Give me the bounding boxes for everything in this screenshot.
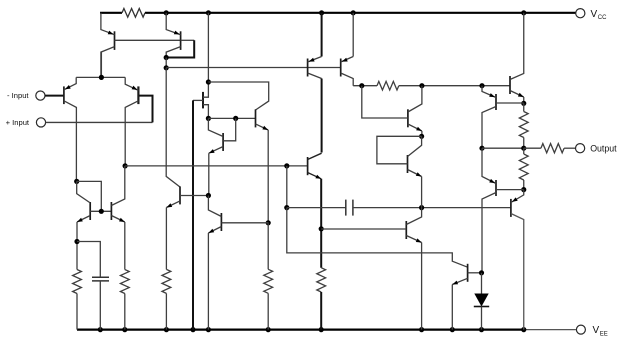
transistor Q21 (PNP, output low-side) [510,199,512,217]
transistor Q8 (NPN, mirror output) [110,202,112,220]
wire R3 to VEE [124,294,126,330]
node Q11 emitter [266,220,271,225]
terminal Output [576,144,585,153]
transistor Q20 (PNP) [495,180,497,196]
node Q5 collector [74,179,79,184]
transistor Q1 (PNP) [114,31,116,50]
terminal VEE [576,325,585,334]
node Q20 base [521,187,526,192]
node bias bus tap [164,65,169,70]
svg-text:Output: Output [590,143,617,153]
node Q6 collector / Q10 base [123,163,128,168]
wire node A to Q11 collector [208,82,268,110]
node Q15 emitter [419,134,424,139]
svg-text:V: V [593,325,600,336]
wire Q7 emitter to C1 [77,242,100,278]
svg-text:V: V [591,9,598,20]
node comp tap [284,163,289,168]
capacitor C1 [92,276,109,278]
transistor Q12 (NPN) [179,186,181,204]
transistor Q16 (NPN, diode-connected) [407,155,409,173]
svg-text:CC: CC [598,15,607,21]
transistor Q4 (PNP) [340,59,342,77]
wire Q7 collector-base tie [77,181,102,211]
wire R2 to VEE corner [76,294,78,330]
transistor Q10 (NPN) [222,133,224,151]
wire node B bus [208,117,255,119]
wire VCC rail (top supply bus) [100,12,122,14]
wire comp node vertical [286,166,288,208]
resistor R9 [519,154,528,180]
transistor Q9 (FET-style bias device) [202,92,204,109]
node Q14 emitter tap [319,226,324,231]
node Q12 base / Q10 emitter [206,193,211,198]
transistor Q3 (PNP) [307,59,309,77]
node: rail junction dots [164,10,169,15]
resistor R10 (output series) [541,144,564,153]
node comp cap left [284,205,289,210]
transistor Q11 (NPN) [255,109,257,127]
node R7 right [419,83,424,88]
wire Q4 collector bus [353,85,377,87]
node output left [479,146,484,151]
wire +Input to Q6 base loop [46,121,153,123]
wire Q10 base bus (y=166) [125,165,308,167]
node A [206,79,211,84]
wire Q1-Q2 base bus [115,39,181,41]
wire Q3 collector to Q10 collector (thick vertical) [321,79,323,153]
wire Q2 collector down to node [165,58,167,68]
transistor Q19 (PNP) [495,94,497,110]
node input-pair tail [99,75,104,80]
capacitor C2 (compensation) [287,207,346,209]
transistor Q7 (NPN, mirror, diode-connected) [89,202,91,220]
transistor Q5 (PNP, inverting input) [63,86,65,104]
node Q7 emitter tap [74,239,79,244]
node mirror base [99,209,104,214]
resistor R7 [377,81,399,90]
wire Q9 gate to VEE (long vertical) [192,100,194,329]
svg-text:- Input: - Input [7,91,29,100]
transistor Q2 (PNP diode-connected) [180,31,182,50]
wire Q7-Q8 base bus [90,210,111,212]
diode D1 [481,273,483,294]
transistor Q17 (NPN) [405,221,407,239]
resistor R3 [120,270,129,294]
resistor R5 [264,269,273,293]
resistor R8 [519,112,528,138]
transistor Q14 (NPN, gain stage) [307,157,309,175]
resistor R2 [73,270,82,294]
transistor Q18 (NPN, output high-side) [509,76,511,94]
node C2 right / Q16 emitter [419,205,424,210]
node Q2 collector [164,55,169,60]
transistor Q6 (PNP, non-inverting input) [137,86,139,104]
wire Q2 node down to Q12 collector [166,68,180,187]
resistor R4 [162,269,171,293]
wire VEE rail (bottom supply bus) [77,329,524,331]
node R7 left [359,83,364,88]
terminal VCC [576,9,585,18]
transistor Q15 (NPN) [407,109,409,127]
svg-text:EE: EE [600,331,608,337]
wire comp node to Q22 collector [287,208,468,268]
wire VCC drop to node A [207,13,209,82]
resistor R6 [317,268,326,292]
wire bias bus to Q3/Q4 bases [166,67,341,69]
node output mid [521,146,526,151]
wire output node [482,147,524,149]
wire input-pair tail [76,76,125,78]
node C [233,116,238,121]
node: VEE rail junction dots [98,327,103,332]
node Q22 base / D1 anode [479,270,484,275]
svg-text:+ Input: + Input [6,118,30,127]
transistor Q13 (NPN) [220,213,222,231]
node Q13 base tap [479,83,484,88]
wire -Input to Q5 base [45,95,64,97]
resistor R1 (top-left bias resistor) [122,9,145,18]
transistor Q22 (NPN) [467,264,469,282]
node B [206,116,211,121]
node Q18 emitter [521,101,526,106]
wire Q2 base-collector tie [181,39,195,41]
